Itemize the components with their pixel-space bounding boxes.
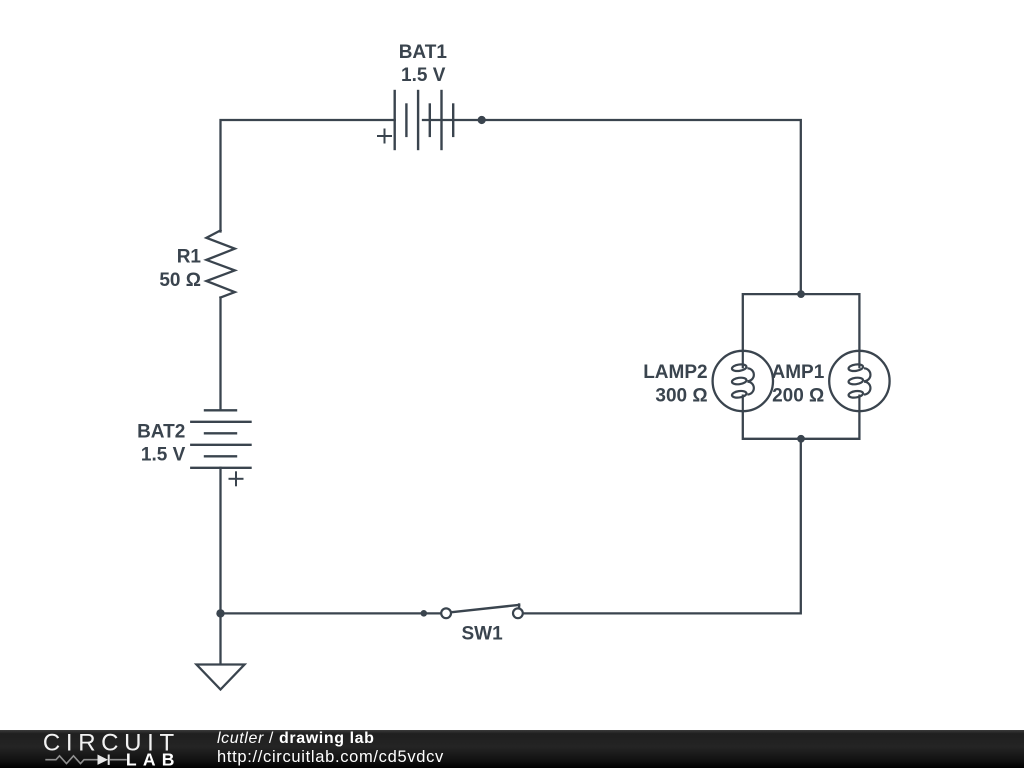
logo diode symbol — [98, 755, 109, 765]
svg-text:BAT1: BAT1 — [399, 42, 448, 63]
lamp LAMP1 bulb circle — [829, 351, 889, 411]
junction node lamp box bottom — [797, 435, 805, 443]
lamp LAMP2 filament coil — [732, 352, 754, 410]
label BAT1 value 1.5 V — [137, 42, 825, 645]
junction node at BAT1 output — [478, 116, 486, 124]
wire top-right: BAT1 to right bus — [423, 120, 801, 294]
footer bar — [0, 730, 1024, 768]
svg-text:200 Ω: 200 Ω — [772, 385, 824, 406]
wire left bus: R1 to BAT2 — [219, 298, 221, 411]
battery BAT1 plus sign — [378, 130, 391, 143]
battery BAT2 plus sign — [230, 472, 243, 485]
wire left bus: BAT2 to bottom node — [219, 468, 221, 665]
svg-text:BAT2: BAT2 — [137, 421, 185, 442]
switch SW1 terminal circle left — [441, 608, 451, 618]
junction node at switch SW1 input — [421, 610, 428, 617]
junction node ground tee — [216, 609, 224, 617]
svg-text:1.5 V: 1.5 V — [401, 65, 446, 86]
svg-text:1.5 V: 1.5 V — [141, 444, 186, 465]
lamp LAMP2 bulb circle — [713, 351, 773, 411]
wire lamp box top — [743, 294, 860, 439]
battery BAT2 plates — [191, 410, 250, 468]
wire bottom-left: node to switch — [221, 612, 441, 614]
wire bottom-right: switch to right bus — [524, 439, 801, 614]
lamp LAMP1 filament coil — [848, 352, 870, 410]
junction node lamp box top — [797, 290, 805, 298]
resistor R1 zigzag — [206, 230, 234, 297]
wire top-left: node from left bus to BAT1 — [221, 120, 395, 232]
svg-text:LAB: LAB — [126, 750, 181, 768]
switch SW1 terminal circle right — [513, 608, 523, 618]
ground symbol — [197, 665, 245, 690]
svg-text:300 Ω: 300 Ω — [655, 385, 707, 406]
svg-text:SW1: SW1 — [462, 624, 504, 645]
svg-text:LAMP2: LAMP2 — [643, 362, 707, 383]
svg-text:R1: R1 — [177, 247, 202, 268]
svg-text:50 Ω: 50 Ω — [159, 270, 201, 291]
footer credits — [217, 730, 717, 768]
logo resistor-diode squiggle — [45, 756, 127, 764]
switch SW1 lever — [452, 605, 519, 612]
CircuitLab logo — [0, 730, 200, 768]
battery BAT1 plates — [395, 91, 454, 149]
